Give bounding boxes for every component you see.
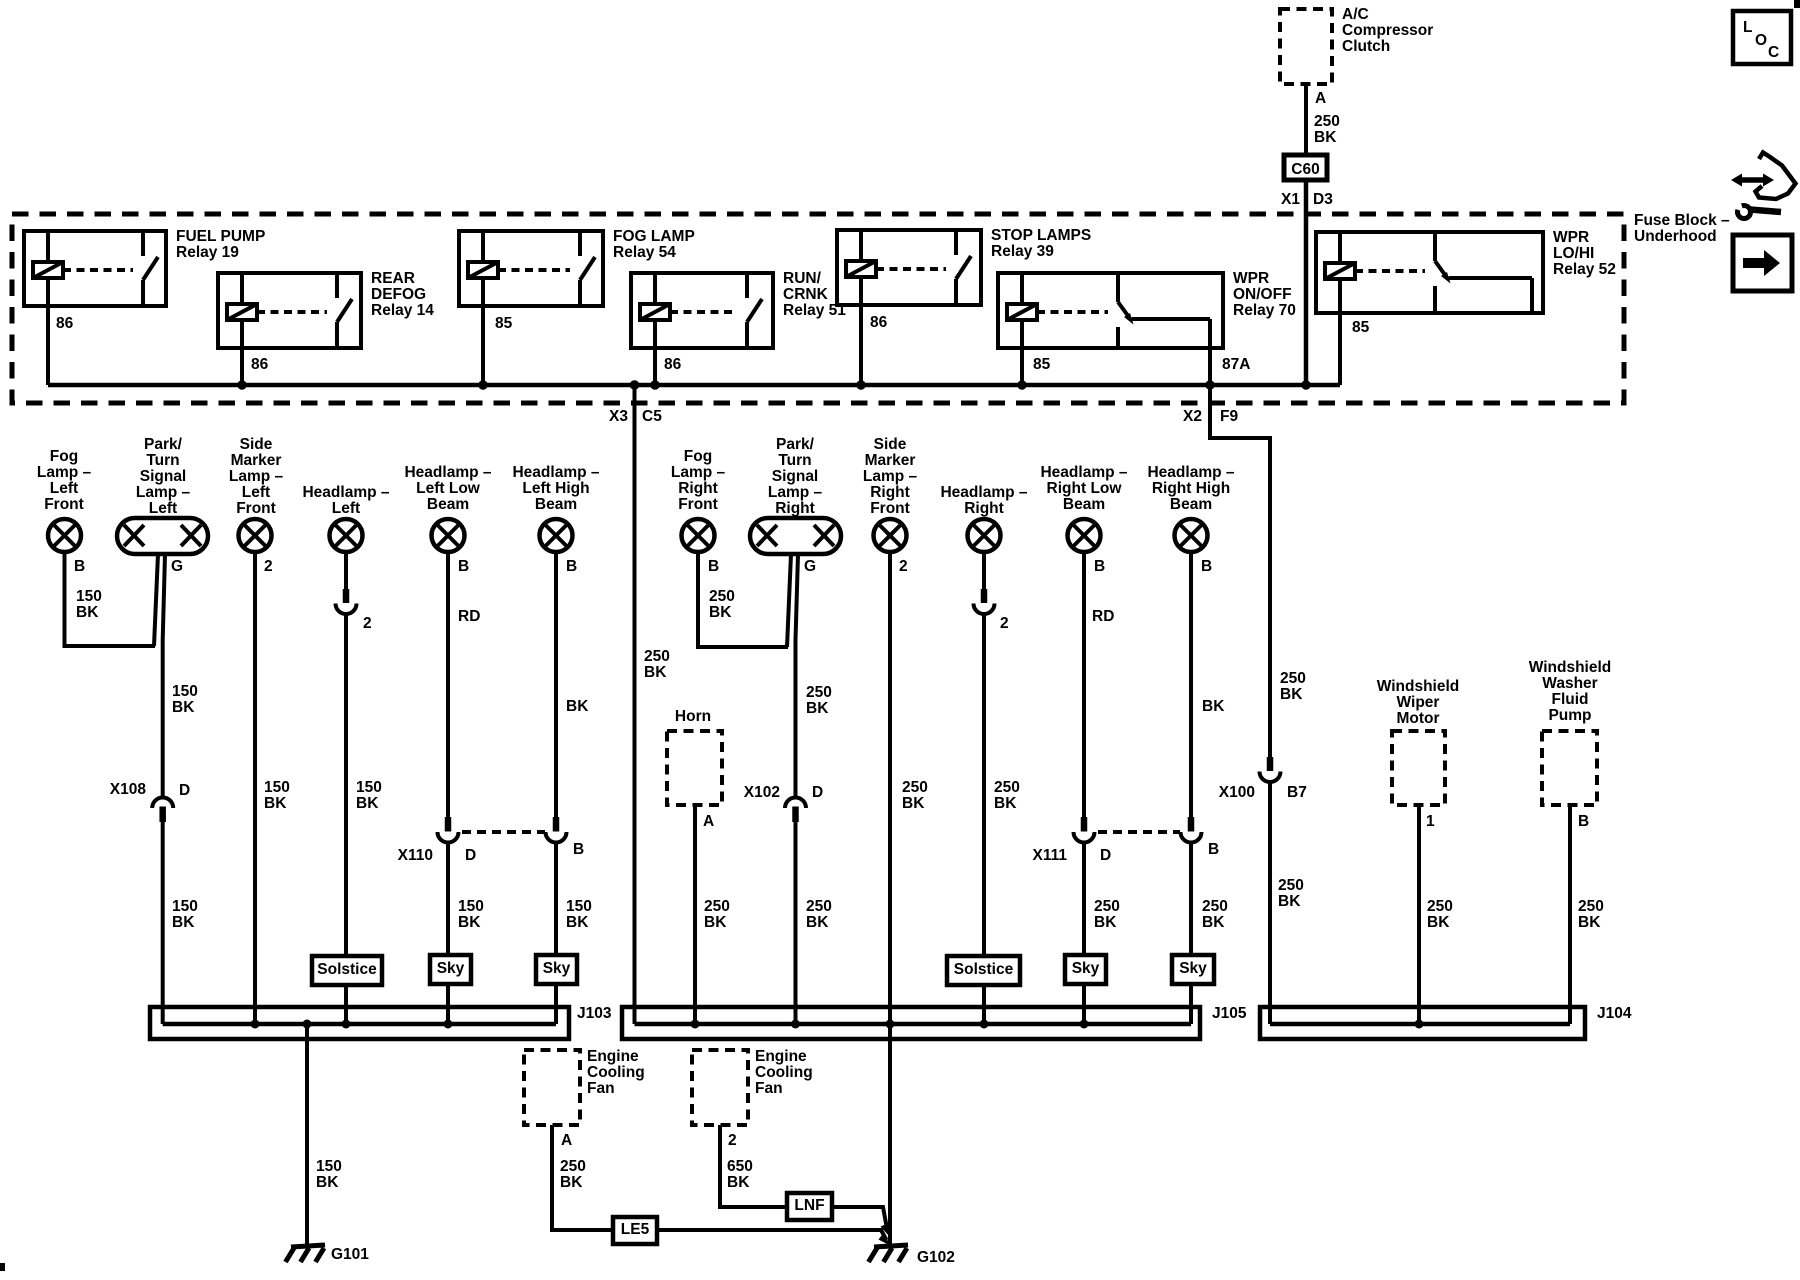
wire fan2 pin 2 to LNF: [720, 1125, 787, 1207]
svg-text:85: 85: [495, 315, 513, 332]
relay FOG LAMP Relay 54: [459, 228, 695, 332]
svg-text:BK: BK: [566, 914, 589, 931]
wire low beam left to J103: [446, 843, 450, 1025]
relay STOP LAMPS Relay 39: [837, 227, 1091, 331]
svg-text:2: 2: [1000, 615, 1009, 632]
svg-text:BK: BK: [994, 795, 1017, 812]
lamp Headlamp - Right: [940, 484, 1027, 552]
svg-text:C5: C5: [642, 408, 662, 425]
wire headlamp right to connector: [982, 552, 986, 589]
svg-text:250: 250: [994, 779, 1020, 796]
svg-text:2: 2: [363, 615, 372, 632]
junction on bus at wpr on/off: [1017, 380, 1027, 390]
junction on bus at a/c drop: [1301, 380, 1311, 390]
lamp Headlamp - Left High Beam: [512, 464, 599, 552]
svg-text:250: 250: [1280, 670, 1306, 687]
svg-text:85: 85: [1352, 319, 1370, 336]
svg-text:Lamp –: Lamp –: [671, 464, 726, 481]
svg-text:Right High: Right High: [1152, 480, 1230, 497]
svg-text:Beam: Beam: [1170, 496, 1212, 513]
lamp Headlamp - Right Low Beam: [1040, 464, 1127, 552]
Windshield Wiper Motor: [1377, 678, 1460, 805]
option tag Sky: [1065, 955, 1106, 984]
svg-text:Fluid: Fluid: [1551, 691, 1588, 708]
junction on bus at fog relay: [478, 380, 488, 390]
ground bus wire inside fuse block: [48, 383, 1340, 388]
svg-text:BK: BK: [1278, 893, 1301, 910]
svg-text:Marker: Marker: [231, 452, 282, 469]
svg-text:Fan: Fan: [587, 1080, 615, 1097]
wire A/C clutch pin A to C60: [1304, 84, 1308, 155]
svg-text:A: A: [1315, 90, 1326, 107]
option tag LNF: [787, 1193, 832, 1220]
svg-text:B: B: [74, 558, 85, 575]
wire rear defog pin 86 to ground bus: [240, 348, 244, 385]
svg-text:BK: BK: [172, 699, 195, 716]
svg-text:B7: B7: [1287, 784, 1307, 801]
svg-text:Relay 52: Relay 52: [1553, 261, 1616, 278]
svg-text:Windshield: Windshield: [1377, 678, 1460, 695]
wire fuel pump pin 86 to ground bus: [46, 306, 50, 385]
svg-text:86: 86: [870, 314, 888, 331]
lamp Park/Turn Signal Lamp - Left: [117, 436, 208, 554]
svg-text:B: B: [566, 558, 577, 575]
svg-text:Clutch: Clutch: [1342, 38, 1390, 55]
svg-text:B: B: [1578, 813, 1589, 830]
wire park/turn left filament: [154, 554, 158, 646]
svg-text:BK: BK: [458, 914, 481, 931]
svg-text:D: D: [1100, 847, 1111, 864]
page artifact mark bottom-left: [0, 1263, 5, 1271]
svg-text:Fog: Fog: [684, 448, 712, 465]
svg-text:J104: J104: [1597, 1005, 1632, 1022]
svg-text:150: 150: [172, 898, 198, 915]
wire headlamp right to J105: [982, 614, 986, 1024]
wire headlamp left to connector: [344, 552, 348, 589]
svg-text:Horn: Horn: [675, 708, 711, 725]
lamp Fog Lamp - Left Front: [37, 448, 92, 552]
svg-text:G101: G101: [331, 1246, 369, 1263]
ground G101: [286, 1245, 326, 1262]
wire park/turn right filament a: [787, 554, 791, 647]
svg-text:Front: Front: [678, 496, 718, 513]
svg-text:250: 250: [1202, 898, 1228, 915]
svg-text:Relay 39: Relay 39: [991, 243, 1054, 260]
connector X110 pin B: [546, 817, 567, 843]
svg-text:DEFOG: DEFOG: [371, 286, 426, 303]
Horn: [667, 708, 722, 805]
splice pack J103: [150, 1007, 569, 1039]
svg-text:BK: BK: [1094, 914, 1117, 931]
svg-text:Motor: Motor: [1396, 710, 1439, 727]
wire wiper motor to J104: [1417, 805, 1421, 1024]
relay REAR DEFOG Relay 14: [218, 270, 434, 373]
svg-text:250: 250: [644, 648, 670, 665]
svg-text:LE5: LE5: [621, 1221, 650, 1238]
wire low beam right to J105: [1082, 843, 1086, 1025]
Engine Cooling Fan 1: [524, 1048, 645, 1125]
lamp Headlamp - Left Low Beam: [404, 464, 491, 552]
splice pack J105: [622, 1007, 1200, 1039]
connector X111 pin D: [1074, 817, 1095, 843]
svg-text:Relay 70: Relay 70: [1233, 302, 1296, 319]
wire high beam right to connector B: [1189, 552, 1193, 817]
svg-text:86: 86: [251, 356, 269, 373]
svg-text:RUN/: RUN/: [783, 270, 822, 287]
svg-text:1: 1: [1426, 813, 1435, 830]
svg-text:85: 85: [1033, 356, 1051, 373]
wire J105 to G102: [888, 1024, 892, 1247]
relay RUN/CRNK Relay 51: [631, 270, 846, 373]
wire X102 to J105: [794, 822, 798, 1024]
svg-text:87A: 87A: [1222, 356, 1250, 373]
wire park/turn right filament to X108: [163, 554, 165, 797]
svg-text:Side: Side: [874, 436, 907, 453]
svg-text:Right Low: Right Low: [1047, 480, 1123, 497]
svg-text:86: 86: [56, 315, 74, 332]
svg-text:C: C: [1768, 44, 1779, 61]
svg-text:Left: Left: [149, 500, 177, 517]
svg-text:Signal: Signal: [772, 468, 819, 485]
svg-text:BK: BK: [1314, 129, 1337, 146]
connector X108 pin D: [152, 798, 173, 822]
svg-text:LO/HI: LO/HI: [1553, 245, 1594, 262]
svg-text:Windshield: Windshield: [1529, 659, 1612, 676]
svg-text:BK: BK: [1578, 914, 1601, 931]
svg-text:Relay 54: Relay 54: [613, 244, 676, 261]
svg-text:Park/: Park/: [776, 436, 815, 453]
wire LNF to G102 with arrow: [832, 1207, 887, 1226]
svg-text:Compressor: Compressor: [1342, 22, 1433, 39]
svg-text:250: 250: [806, 684, 832, 701]
svg-text:Beam: Beam: [535, 496, 577, 513]
svg-text:Engine: Engine: [755, 1048, 807, 1065]
svg-text:CRNK: CRNK: [783, 286, 829, 303]
svg-text:ON/OFF: ON/OFF: [1233, 286, 1292, 303]
svg-text:250: 250: [1578, 898, 1604, 915]
svg-text:STOP LAMPS: STOP LAMPS: [991, 227, 1091, 244]
wire fog left to park/turn lamp: [65, 552, 156, 646]
lamp Side Marker Lamp - Right Front: [863, 436, 918, 552]
svg-text:D: D: [812, 784, 823, 801]
LOC legend box: [1733, 11, 1791, 64]
junction on bus at run/crnk: [650, 380, 660, 390]
svg-text:150: 150: [356, 779, 382, 796]
svg-text:A: A: [561, 1132, 572, 1149]
svg-text:250: 250: [560, 1158, 586, 1175]
svg-text:Sky: Sky: [1179, 960, 1207, 977]
svg-text:Right: Right: [964, 500, 1004, 517]
svg-text:Relay 19: Relay 19: [176, 244, 239, 261]
wire X100 to J104: [1268, 782, 1272, 1024]
svg-text:150: 150: [76, 588, 102, 605]
lamp Park/Turn Signal Lamp - Right: [750, 436, 841, 554]
wire wpr lo/hi pin 85 to ground bus: [1338, 307, 1342, 385]
svg-text:Sky: Sky: [437, 960, 465, 977]
svg-text:Lamp –: Lamp –: [863, 468, 918, 485]
svg-text:Left High: Left High: [522, 480, 589, 497]
svg-text:Side: Side: [240, 436, 273, 453]
svg-text:A/C: A/C: [1342, 6, 1369, 23]
svg-text:Front: Front: [870, 500, 910, 517]
svg-text:Underhood: Underhood: [1634, 228, 1717, 245]
svg-text:250: 250: [1314, 113, 1340, 130]
svg-text:250: 250: [806, 898, 832, 915]
junction on bus at 87A drop: [1205, 380, 1215, 390]
svg-text:Beam: Beam: [427, 496, 469, 513]
connector X111 pin B: [1181, 817, 1202, 843]
wire high beam right to J105: [1189, 843, 1193, 1025]
svg-text:WPR: WPR: [1553, 229, 1589, 246]
connector C60: [1284, 155, 1327, 180]
svg-text:Left: Left: [242, 484, 270, 501]
svg-text:250: 250: [902, 779, 928, 796]
svg-text:Headlamp –: Headlamp –: [404, 464, 491, 481]
connector X100 pin B7: [1260, 757, 1281, 782]
svg-text:250: 250: [1427, 898, 1453, 915]
svg-text:BK: BK: [264, 795, 287, 812]
svg-text:Right: Right: [775, 500, 815, 517]
wire J103 to G101: [305, 1024, 309, 1247]
junction on bus at X3/C5 drop: [630, 380, 640, 390]
headlamp right connector pin 2: [974, 589, 995, 614]
wire bus to J103/J105 via X3/C5: [633, 385, 637, 1024]
svg-text:O: O: [1755, 32, 1767, 49]
option tag LE5: [613, 1217, 657, 1244]
svg-text:150: 150: [566, 898, 592, 915]
svg-text:BK: BK: [709, 604, 732, 621]
svg-text:Solstice: Solstice: [317, 961, 377, 978]
svg-text:Sky: Sky: [1072, 960, 1100, 977]
svg-text:G: G: [171, 558, 183, 575]
option tag Solstice: [312, 956, 382, 985]
svg-text:L: L: [1743, 19, 1752, 36]
svg-text:2: 2: [728, 1132, 737, 1149]
svg-text:Headlamp –: Headlamp –: [512, 464, 599, 481]
svg-text:D3: D3: [1313, 191, 1333, 208]
svg-text:BK: BK: [1202, 914, 1225, 931]
wire fog right to park/turn lamp: [698, 552, 788, 647]
relay FUEL PUMP Relay 19: [24, 228, 265, 332]
svg-text:X110: X110: [398, 847, 433, 864]
svg-text:Headlamp –: Headlamp –: [302, 484, 389, 501]
lamp Side Marker Lamp - Left Front: [229, 436, 284, 552]
svg-text:Marker: Marker: [865, 452, 916, 469]
svg-text:Cooling: Cooling: [755, 1064, 813, 1081]
svg-text:X1: X1: [1281, 191, 1300, 208]
connector X110 pin D: [438, 817, 459, 843]
svg-text:Fog: Fog: [50, 448, 78, 465]
svg-text:J105: J105: [1212, 1005, 1247, 1022]
svg-text:Fan: Fan: [755, 1080, 783, 1097]
svg-text:BK: BK: [76, 604, 99, 621]
svg-text:BK: BK: [806, 700, 829, 717]
svg-text:BK: BK: [704, 914, 727, 931]
svg-text:Headlamp –: Headlamp –: [1147, 464, 1234, 481]
svg-text:Washer: Washer: [1542, 675, 1597, 692]
svg-text:BK: BK: [356, 795, 379, 812]
wire low beam left to X110: [446, 552, 450, 817]
svg-text:WPR: WPR: [1233, 270, 1269, 287]
wire high beam left to connector B: [554, 552, 558, 817]
svg-text:250: 250: [704, 898, 730, 915]
svg-text:Pump: Pump: [1548, 707, 1591, 724]
splice pack J104: [1260, 1007, 1585, 1039]
svg-text:G102: G102: [917, 1249, 955, 1266]
svg-text:Park/: Park/: [144, 436, 183, 453]
svg-text:Lamp –: Lamp –: [768, 484, 823, 501]
svg-text:RD: RD: [458, 608, 480, 625]
svg-text:Turn: Turn: [778, 452, 811, 469]
svg-text:Turn: Turn: [146, 452, 179, 469]
svg-text:2: 2: [264, 558, 273, 575]
wire headlamp left to J103: [344, 614, 348, 1024]
svg-text:BK: BK: [316, 1174, 339, 1191]
svg-text:Left: Left: [332, 500, 360, 517]
connector X110 pin link dashed: [462, 830, 545, 834]
svg-text:Relay 14: Relay 14: [371, 302, 434, 319]
svg-text:Engine: Engine: [587, 1048, 639, 1065]
svg-text:Lamp –: Lamp –: [136, 484, 191, 501]
wire side marker left to J103: [253, 552, 257, 1024]
svg-text:150: 150: [172, 683, 198, 700]
lamp Fog Lamp - Right Front: [671, 448, 726, 552]
svg-text:B: B: [1208, 841, 1219, 858]
svg-text:BK: BK: [1280, 686, 1303, 703]
Engine Cooling Fan 2: [692, 1048, 813, 1125]
svg-text:Lamp –: Lamp –: [229, 468, 284, 485]
svg-text:X3: X3: [609, 408, 628, 425]
svg-text:D: D: [179, 782, 190, 799]
svg-text:Front: Front: [44, 496, 84, 513]
option tag Sky: [536, 955, 577, 984]
hand-drawn arrow/wrench annotation icon: [1731, 153, 1796, 219]
svg-text:BK: BK: [902, 795, 925, 812]
svg-text:BK: BK: [566, 698, 589, 715]
svg-text:BK: BK: [727, 1174, 750, 1191]
wire run/crnk pin 86 to ground bus: [653, 348, 657, 385]
wire stop lamps pin 86 to ground bus: [859, 305, 863, 385]
svg-text:BK: BK: [806, 914, 829, 931]
svg-text:Front: Front: [236, 500, 276, 517]
svg-text:FOG LAMP: FOG LAMP: [613, 228, 695, 245]
svg-text:A: A: [703, 813, 714, 830]
Windshield Washer Fluid Pump: [1529, 659, 1612, 805]
svg-text:650: 650: [727, 1158, 753, 1175]
wire park/turn right filament b to X102: [796, 554, 799, 797]
svg-text:Beam: Beam: [1063, 496, 1105, 513]
svg-text:FUEL PUMP: FUEL PUMP: [176, 228, 265, 245]
wire side marker right to J105: [888, 552, 892, 1024]
svg-text:B: B: [708, 558, 719, 575]
junction on bus at stop lamps: [856, 380, 866, 390]
option tag Sky: [430, 955, 471, 984]
svg-text:86: 86: [664, 356, 682, 373]
svg-text:F9: F9: [1220, 408, 1238, 425]
svg-text:X2: X2: [1183, 408, 1202, 425]
connector X102 pin D: [785, 798, 806, 822]
svg-text:G: G: [804, 558, 816, 575]
svg-text:250: 250: [1278, 877, 1304, 894]
svg-text:X102: X102: [744, 784, 780, 801]
wire fog lamp relay pin 85 to ground bus: [481, 306, 485, 385]
A/C Compressor Clutch: [1280, 6, 1433, 84]
svg-text:Sky: Sky: [543, 960, 571, 977]
wire low beam right to X111: [1082, 552, 1086, 817]
svg-text:Left Low: Left Low: [416, 480, 481, 497]
connector X111 pin link dashed: [1098, 830, 1180, 834]
svg-text:D: D: [465, 847, 476, 864]
option tag Solstice: [947, 956, 1020, 985]
svg-text:Right: Right: [870, 484, 910, 501]
svg-text:X100: X100: [1219, 784, 1255, 801]
wire horn to J105: [693, 805, 697, 1024]
relay WPR ON/OFF Relay 70: [998, 270, 1296, 385]
lamp Headlamp - Left: [302, 484, 389, 552]
svg-text:Right: Right: [678, 480, 718, 497]
svg-text:B: B: [573, 841, 584, 858]
right-arrow navigation box: [1733, 235, 1792, 291]
svg-text:C60: C60: [1291, 161, 1319, 178]
svg-text:RD: RD: [1092, 608, 1114, 625]
svg-text:BK: BK: [560, 1174, 583, 1191]
svg-text:BK: BK: [1202, 698, 1225, 715]
svg-text:J103: J103: [577, 1005, 612, 1022]
svg-text:150: 150: [458, 898, 484, 915]
svg-text:Headlamp –: Headlamp –: [940, 484, 1027, 501]
svg-text:Wiper: Wiper: [1397, 694, 1440, 711]
lamp Headlamp - Right High Beam: [1147, 464, 1234, 552]
svg-text:REAR: REAR: [371, 270, 415, 287]
svg-text:BK: BK: [1427, 914, 1450, 931]
option tag Sky: [1172, 955, 1214, 984]
svg-text:BK: BK: [644, 664, 667, 681]
wire washer pump to J104: [1568, 805, 1572, 1024]
wire LE5 to G102 with arrow: [657, 1230, 887, 1240]
headlamp left connector pin 2: [336, 589, 357, 614]
svg-text:B: B: [1094, 558, 1105, 575]
svg-text:Left: Left: [50, 480, 78, 497]
ground G102: [869, 1245, 909, 1262]
svg-text:150: 150: [316, 1158, 342, 1175]
wire X108 to J103: [161, 822, 165, 1024]
svg-text:Headlamp –: Headlamp –: [1040, 464, 1127, 481]
svg-text:LNF: LNF: [794, 1197, 824, 1214]
wire fan1 pin A to LE5: [552, 1125, 613, 1230]
svg-text:BK: BK: [172, 914, 195, 931]
relay WPR LO/HI Relay 52: [1316, 229, 1616, 336]
svg-text:X111: X111: [1033, 847, 1068, 864]
wire wpr on/off pin 85 to ground bus: [1020, 348, 1024, 385]
svg-text:B: B: [458, 558, 469, 575]
svg-text:Cooling: Cooling: [587, 1064, 645, 1081]
wire high beam left to J103: [554, 843, 558, 1025]
svg-text:Signal: Signal: [140, 468, 187, 485]
page artifact mark top-right: [1794, 0, 1800, 8]
svg-text:Solstice: Solstice: [954, 961, 1014, 978]
svg-text:150: 150: [264, 779, 290, 796]
svg-text:X108: X108: [110, 781, 147, 798]
svg-text:B: B: [1201, 558, 1212, 575]
svg-text:Fuse Block –: Fuse Block –: [1634, 212, 1730, 229]
wire C60 to fuse block bus, X1/D3: [1304, 180, 1309, 385]
wire 87A to X100 via X2/F9: [1210, 385, 1270, 757]
svg-text:250: 250: [1094, 898, 1120, 915]
svg-text:2: 2: [899, 558, 908, 575]
svg-text:250: 250: [709, 588, 735, 605]
junction on bus at rear defog: [237, 380, 247, 390]
svg-text:Lamp –: Lamp –: [37, 464, 92, 481]
